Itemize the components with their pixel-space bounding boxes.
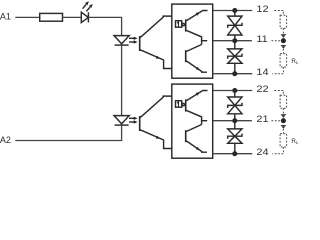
- wire corner to A2: [15, 125, 121, 140]
- current arrow into node: [281, 35, 286, 38]
- load resistor RL3 dashed: [280, 95, 287, 108]
- current arrow into node: [281, 115, 286, 118]
- TVS suppressor D5: [228, 121, 242, 154]
- svg-text:14: 14: [256, 68, 269, 78]
- transistor Q2: [185, 45, 207, 73]
- svg-text:24: 24: [256, 148, 269, 158]
- svg-text:RL: RL: [291, 58, 299, 65]
- svg-text:RL: RL: [291, 138, 299, 145]
- wire rail 14: [213, 73, 253, 75]
- wire rail 24: [213, 153, 253, 155]
- external junction node top: [281, 38, 286, 43]
- junction node 24: [232, 151, 237, 156]
- junction node 22: [232, 88, 237, 93]
- optocoupler O1 phototransistor: [139, 16, 172, 68]
- wire between optocouplers: [121, 45, 123, 116]
- driver block U1: [172, 4, 213, 78]
- svg-text:A2: A2: [0, 135, 11, 145]
- transistor Q4: [185, 125, 207, 153]
- wire rail 22: [213, 90, 253, 92]
- node stub 11: [202, 40, 208, 42]
- resistor R1: [40, 13, 63, 21]
- wire rail 11: [213, 40, 252, 42]
- optocoupler O2 light arrows: [129, 117, 138, 124]
- external dashed lead from 12: [275, 11, 284, 16]
- junction node 12: [232, 8, 237, 13]
- driver U2 inverter bubble: [182, 103, 184, 105]
- dashed lead to 24: [272, 147, 283, 154]
- transistor Q3: [185, 91, 208, 125]
- wire LED to corner down: [88, 17, 121, 35]
- junction node 21: [232, 118, 237, 123]
- dashed lead from 11: [272, 40, 281, 42]
- svg-text:21: 21: [256, 115, 269, 125]
- node stub 21: [202, 120, 208, 122]
- TVS suppressor D3: [228, 41, 242, 74]
- load resistor RL4 dashed: [280, 134, 287, 147]
- current arrow below node: [281, 126, 286, 129]
- TVS suppressor D2: [228, 11, 242, 41]
- external dashed lead from 22: [275, 91, 284, 96]
- driver U2 function symbol 1: [176, 101, 182, 108]
- svg-text:A1: A1: [0, 12, 11, 22]
- driver U1 function symbol 1: [176, 21, 182, 28]
- wire A1 to resistor: [15, 16, 39, 18]
- wire rail 12: [213, 10, 253, 12]
- svg-text:12: 12: [256, 5, 269, 15]
- wire rail 21: [213, 120, 252, 122]
- junction node 11: [232, 38, 237, 43]
- load resistor RL2 dashed: [280, 54, 287, 67]
- svg-text:11: 11: [256, 35, 268, 45]
- optocoupler O1 LED: [114, 36, 129, 46]
- transistor Q1: [185, 11, 208, 45]
- optocoupler O2 phototransistor: [139, 96, 172, 148]
- driver U1 inverter bubble: [182, 23, 184, 25]
- dashed lead above RL4: [282, 129, 284, 134]
- LED D1 status indicator: [81, 1, 92, 22]
- dashed lead to 14: [272, 67, 283, 74]
- load resistor RL1 dashed: [280, 15, 287, 28]
- current arrow below node: [281, 46, 286, 49]
- optocoupler O1 light arrows: [129, 37, 138, 44]
- dashed lead below RL1: [282, 28, 284, 33]
- dashed lead above RL2: [282, 49, 284, 54]
- driver block U2: [172, 84, 213, 158]
- svg-text:22: 22: [256, 85, 269, 95]
- wire resistor to LED: [63, 16, 82, 18]
- external junction node bottom: [281, 118, 286, 123]
- dashed lead below RL3: [282, 108, 284, 113]
- optocoupler O2 LED: [114, 116, 129, 126]
- junction node 14: [232, 71, 237, 76]
- TVS suppressor D4: [228, 91, 242, 121]
- dashed lead from 21: [272, 120, 281, 122]
